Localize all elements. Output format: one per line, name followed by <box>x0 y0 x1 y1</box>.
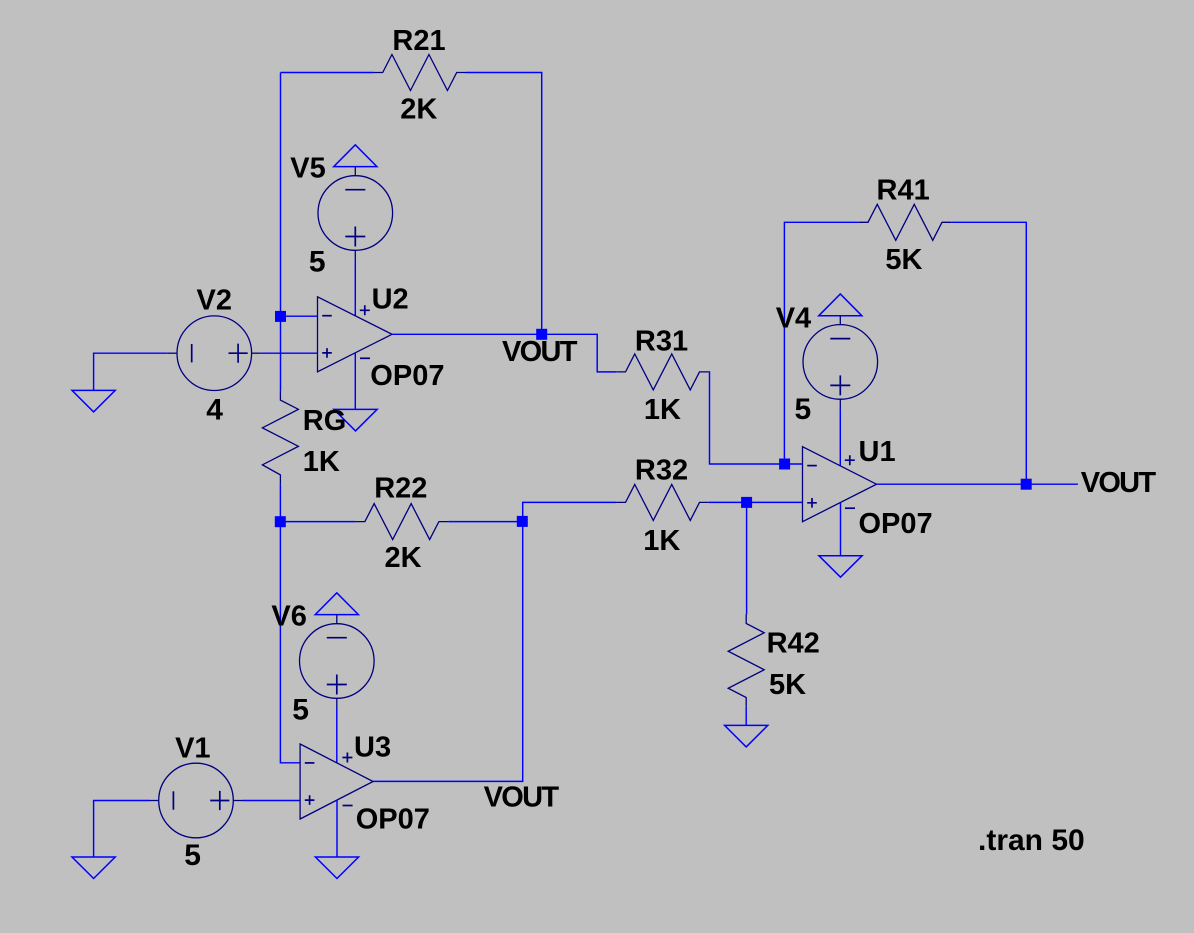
resistor R42 <box>728 614 764 707</box>
node B (RG / R22 junction) <box>275 516 286 527</box>
wire R21 left lead <box>281 72 374 74</box>
wire R42 bottom to ground <box>745 707 747 726</box>
svg-text:2K: 2K <box>400 93 437 125</box>
ground (U1) <box>819 556 862 578</box>
wire U1 V- pin to ground <box>840 503 842 556</box>
svg-text:OP07: OP07 <box>859 508 933 540</box>
resistor RG <box>262 391 298 484</box>
voltage source V5 <box>318 176 393 251</box>
svg-text:5: 5 <box>795 393 812 426</box>
ground (R42) <box>725 725 768 747</box>
wire flag stem V6 <box>336 615 338 624</box>
wire V1 plus to U3 noninverting input <box>243 800 301 802</box>
wire V5 to U2 V+ pin <box>354 260 356 316</box>
svg-text:U3: U3 <box>354 732 391 764</box>
op-amp U3 <box>300 744 373 819</box>
svg-text:OP07: OP07 <box>370 360 444 392</box>
node VOUT (U2 output) <box>536 329 547 340</box>
ground (U3) <box>315 857 358 879</box>
wire R21 right lead to VOUT node vertical <box>466 73 542 335</box>
wire V6 bottom stub <box>336 698 338 707</box>
svg-text:VOUT: VOUT <box>1081 467 1157 499</box>
wire U3 V- pin to ground <box>336 800 338 857</box>
svg-text:V4: V4 <box>776 302 811 334</box>
resistor R21 <box>373 55 466 91</box>
stub V1 right <box>233 800 242 802</box>
wire R32 right lead to U1 noninverting input <box>709 501 803 503</box>
svg-text:5: 5 <box>309 246 326 279</box>
node VOUT (U1 output) <box>1021 479 1032 490</box>
node U2 inverting junction <box>275 311 286 322</box>
power flag above V5 <box>334 145 377 167</box>
svg-text:.tran 50: .tran 50 <box>978 824 1085 857</box>
wire V5 bottom stub <box>354 250 356 259</box>
wire R22 left lead <box>280 521 355 523</box>
wire R22 right lead <box>448 521 522 523</box>
ground (V1) <box>72 857 115 879</box>
resistor R22 <box>356 504 449 540</box>
node C (R22 / U3 output junction) <box>517 516 528 527</box>
svg-text:4: 4 <box>206 394 223 427</box>
svg-text:V1: V1 <box>175 732 210 764</box>
wire flag stem V5 <box>354 167 356 176</box>
svg-text:RG: RG <box>303 405 347 437</box>
wire V2 minus to ground <box>94 353 168 390</box>
wire R41 right vertical to output node <box>951 222 1026 484</box>
svg-text:V5: V5 <box>290 153 325 185</box>
voltage source V4 <box>803 325 878 400</box>
wire V2 plus to U2 noninverting input <box>261 352 318 354</box>
resistor R32 <box>616 484 709 520</box>
svg-text:1K: 1K <box>303 446 340 478</box>
wire U1 output to VOUT <box>877 483 1078 485</box>
stub V2 left <box>168 352 177 354</box>
svg-text:V2: V2 <box>197 285 232 317</box>
wire left feedback vertical from R21 to RG <box>280 73 282 391</box>
svg-text:OP07: OP07 <box>356 804 430 836</box>
svg-text:5K: 5K <box>769 669 806 701</box>
svg-text:R31: R31 <box>635 326 688 358</box>
voltage source V6 <box>300 624 375 699</box>
wire U2 output to R31 corner <box>392 334 616 372</box>
ground (V2) <box>72 390 115 412</box>
svg-text:R41: R41 <box>877 175 930 207</box>
wire node to R42 <box>745 502 747 614</box>
op-amp U2 <box>318 297 393 372</box>
svg-text:2K: 2K <box>385 542 422 574</box>
node U1 noninverting junction <box>741 497 752 508</box>
svg-text:5: 5 <box>184 839 201 872</box>
stub V2 right <box>252 352 261 354</box>
ground (U2) <box>334 409 377 431</box>
wire U2 V- pin to ground <box>354 353 356 410</box>
svg-text:U1: U1 <box>859 436 896 468</box>
stub V1 left <box>150 800 159 802</box>
svg-text:R42: R42 <box>767 628 820 660</box>
power flag above V4 <box>819 294 862 316</box>
wire V4 bottom stub <box>839 399 841 408</box>
svg-text:V6: V6 <box>271 600 306 632</box>
svg-text:U2: U2 <box>372 283 409 315</box>
svg-text:R21: R21 <box>392 25 445 57</box>
wire node C up to R32 line <box>523 502 617 521</box>
resistor R31 <box>616 354 709 390</box>
wire U2 inverting input <box>281 315 318 317</box>
resistor R41 <box>859 204 952 240</box>
wire R31 right lead down to U1 inverting input <box>709 372 803 464</box>
voltage source V1 <box>159 763 234 838</box>
svg-text:5K: 5K <box>885 244 922 276</box>
wire node C down to U3 output <box>373 521 523 781</box>
node U1 inverting junction <box>779 459 790 470</box>
svg-text:1K: 1K <box>644 394 681 426</box>
svg-text:VOUT: VOUT <box>502 336 578 368</box>
svg-text:5: 5 <box>292 694 309 727</box>
wire flag stem V4 <box>839 316 841 325</box>
wire V4 to U1 V+ pin <box>839 408 841 465</box>
wire V6 to U3 V+ pin <box>336 708 338 764</box>
voltage source V2 <box>177 316 252 391</box>
svg-text:R22: R22 <box>374 472 427 504</box>
op-amp U1 <box>803 447 877 522</box>
power flag above V6 <box>315 593 358 615</box>
svg-text:R32: R32 <box>635 454 688 486</box>
wire RG bottom to node B and down to U3 inverting input <box>280 484 300 763</box>
svg-text:VOUT: VOUT <box>484 782 560 814</box>
wire R41 left vertical <box>784 222 858 464</box>
svg-text:1K: 1K <box>643 525 680 557</box>
wire V1 minus to ground <box>94 801 150 858</box>
